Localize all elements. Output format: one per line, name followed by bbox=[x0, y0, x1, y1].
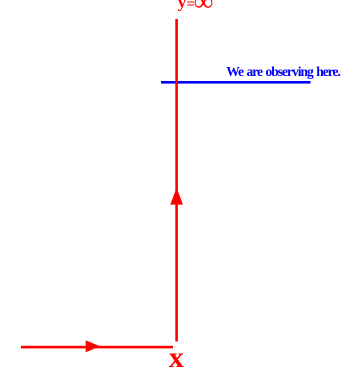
wire: red horizontal line (x-axis) bbox=[21, 346, 173, 349]
wire: blue horizontal observation line bbox=[161, 81, 311, 84]
right arrowhead on x-axis bbox=[86, 340, 101, 352]
svg-text:y: y bbox=[178, 0, 187, 12]
wire: red vertical line (y-axis toward infinity) bbox=[175, 19, 178, 342]
up arrowhead on y-axis bbox=[170, 188, 183, 205]
svg-text:∞: ∞ bbox=[194, 0, 213, 16]
svg-text:x: x bbox=[169, 341, 184, 367]
svg-text:We are observing here.: We are observing here. bbox=[226, 64, 340, 79]
